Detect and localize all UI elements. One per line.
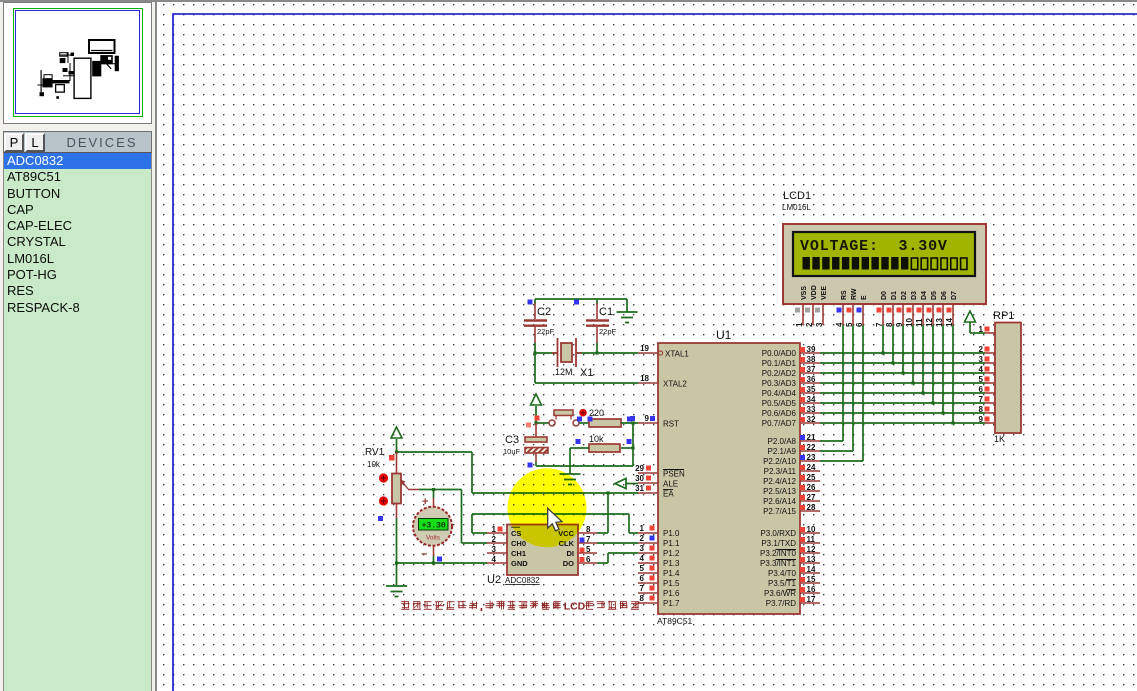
svg-text:P2.1/A9: P2.1/A9 — [768, 447, 797, 456]
svg-text:C3: C3 — [505, 434, 519, 446]
svg-text:E: E — [861, 295, 868, 300]
svg-text:32: 32 — [807, 415, 816, 424]
svg-text:D0: D0 — [881, 291, 888, 300]
svg-text:C2: C2 — [537, 306, 551, 318]
svg-text:D5: D5 — [931, 291, 938, 300]
svg-text:8: 8 — [640, 594, 645, 603]
svg-text:10k: 10k — [589, 434, 604, 444]
svg-text:Volts: Volts — [426, 535, 441, 542]
svg-text:2: 2 — [979, 345, 984, 354]
svg-text:16: 16 — [807, 585, 816, 594]
svg-text:22pF: 22pF — [537, 327, 555, 336]
svg-text:DO: DO — [563, 559, 574, 568]
svg-text:P0.0/AD0: P0.0/AD0 — [762, 349, 797, 358]
svg-text:9: 9 — [979, 415, 984, 424]
svg-text:28: 28 — [807, 503, 816, 512]
svg-text:12: 12 — [807, 545, 816, 554]
svg-text:8: 8 — [586, 525, 591, 534]
svg-text:D7: D7 — [951, 291, 958, 300]
svg-text:37: 37 — [807, 365, 816, 374]
svg-text:RP1: RP1 — [993, 310, 1014, 322]
svg-text:10: 10 — [807, 525, 816, 534]
svg-text:RV1: RV1 — [365, 447, 385, 458]
svg-text:P0.4/AD4: P0.4/AD4 — [762, 389, 797, 398]
svg-text:35: 35 — [807, 385, 816, 394]
svg-text:5: 5 — [979, 375, 984, 384]
svg-text:11: 11 — [807, 535, 816, 544]
svg-text:17: 17 — [807, 595, 816, 604]
svg-text:31: 31 — [635, 484, 644, 493]
svg-text:VOLTAGE: 3.30V: VOLTAGE: 3.30V — [800, 238, 948, 255]
svg-text:6: 6 — [979, 385, 984, 394]
svg-text:3: 3 — [640, 544, 645, 553]
svg-text:ADC0832: ADC0832 — [505, 576, 540, 585]
svg-text:P1.5: P1.5 — [663, 579, 680, 588]
svg-text:U2: U2 — [487, 574, 501, 586]
svg-text:+: + — [422, 496, 428, 508]
svg-text:P0.5/AD5: P0.5/AD5 — [762, 399, 797, 408]
svg-text:CH0: CH0 — [511, 539, 526, 548]
svg-text:+3.30: +3.30 — [421, 521, 445, 531]
svg-text:36: 36 — [807, 375, 816, 384]
svg-text:P1.0: P1.0 — [663, 529, 680, 538]
svg-text:38: 38 — [807, 355, 816, 364]
svg-text:14: 14 — [807, 565, 816, 574]
svg-text:PSEN: PSEN — [663, 470, 685, 479]
svg-text:P2.4/A12: P2.4/A12 — [763, 477, 796, 486]
svg-text:22: 22 — [807, 443, 816, 452]
svg-text:4: 4 — [979, 365, 984, 374]
svg-text:P2.2/A10: P2.2/A10 — [763, 457, 796, 466]
svg-text:P3.4/T0: P3.4/T0 — [768, 569, 797, 578]
svg-text:4: 4 — [492, 555, 497, 564]
svg-text:U1: U1 — [716, 328, 732, 342]
svg-text:19: 19 — [640, 344, 649, 353]
svg-text:VEE: VEE — [821, 286, 828, 300]
svg-text:P1.2: P1.2 — [663, 549, 680, 558]
svg-text:21: 21 — [807, 433, 816, 442]
svg-text:2: 2 — [640, 534, 645, 543]
svg-text:P1.6: P1.6 — [663, 589, 680, 598]
svg-text:33: 33 — [807, 405, 816, 414]
svg-text:1: 1 — [640, 524, 645, 533]
svg-text:D3: D3 — [911, 291, 918, 300]
svg-text:P2.6/A14: P2.6/A14 — [763, 497, 796, 506]
svg-text:EA: EA — [663, 490, 674, 499]
svg-text:P2.7/A15: P2.7/A15 — [763, 507, 796, 516]
svg-text:P0.7/AD7: P0.7/AD7 — [762, 419, 797, 428]
svg-text:P0.2/AD2: P0.2/AD2 — [762, 369, 797, 378]
svg-text:P3.5/T1: P3.5/T1 — [768, 579, 797, 588]
svg-text:13: 13 — [807, 555, 816, 564]
svg-text:LCD1: LCD1 — [783, 190, 811, 202]
svg-text:1: 1 — [979, 325, 984, 334]
svg-text:12M: 12M — [555, 367, 573, 377]
svg-text:RW: RW — [851, 288, 858, 300]
svg-text:D2: D2 — [901, 291, 908, 300]
svg-text:3: 3 — [815, 322, 824, 327]
svg-text:RST: RST — [663, 420, 679, 429]
svg-text:DI: DI — [567, 549, 575, 558]
svg-text:2: 2 — [805, 322, 814, 327]
svg-text:7: 7 — [979, 395, 984, 404]
svg-text:39: 39 — [807, 345, 816, 354]
svg-text:X1: X1 — [580, 367, 593, 379]
svg-text:D4: D4 — [921, 291, 928, 300]
svg-text:6: 6 — [640, 574, 645, 583]
svg-text:24: 24 — [807, 463, 816, 472]
svg-text:8: 8 — [979, 405, 984, 414]
svg-text:34: 34 — [807, 395, 816, 404]
svg-text:P3.3/INT1: P3.3/INT1 — [760, 559, 797, 568]
svg-text:3: 3 — [979, 355, 984, 364]
svg-text:ALE: ALE — [663, 480, 678, 489]
svg-text:23: 23 — [807, 453, 816, 462]
svg-text:P0.6/AD6: P0.6/AD6 — [762, 409, 797, 418]
svg-text:30: 30 — [635, 474, 644, 483]
svg-text:P2.3/A11: P2.3/A11 — [764, 467, 797, 476]
svg-text:RS: RS — [841, 290, 848, 300]
svg-text:27: 27 — [807, 493, 816, 502]
svg-text:P2.0/A8: P2.0/A8 — [768, 437, 797, 446]
svg-text:P3.0/RXD: P3.0/RXD — [760, 529, 796, 538]
svg-text:LCD: LCD — [564, 601, 586, 613]
svg-text:26: 26 — [807, 483, 816, 492]
svg-text:LM016L: LM016L — [782, 203, 811, 212]
svg-text:P0.1/AD1: P0.1/AD1 — [762, 359, 797, 368]
svg-text:GND: GND — [511, 559, 528, 568]
svg-text:1K: 1K — [994, 434, 1005, 444]
svg-text:22pF: 22pF — [599, 327, 617, 336]
svg-text:VSS: VSS — [801, 286, 808, 300]
svg-text:10uF: 10uF — [503, 447, 521, 456]
svg-text:P1.7: P1.7 — [663, 599, 680, 608]
svg-text:7: 7 — [640, 584, 645, 593]
svg-text:6: 6 — [586, 555, 591, 564]
svg-text:4: 4 — [640, 554, 645, 563]
svg-text:P1.3: P1.3 — [663, 559, 680, 568]
svg-text:P0.3/AD3: P0.3/AD3 — [762, 379, 797, 388]
svg-text:3: 3 — [492, 545, 497, 554]
svg-text:5: 5 — [586, 545, 591, 554]
svg-text:10k: 10k — [367, 460, 381, 469]
svg-text:VDD: VDD — [811, 285, 818, 300]
svg-text:P3.2/INT0: P3.2/INT0 — [760, 549, 797, 558]
svg-text:7: 7 — [586, 535, 591, 544]
svg-text:P1.1: P1.1 — [663, 539, 680, 548]
svg-text:29: 29 — [635, 464, 644, 473]
svg-text:D6: D6 — [941, 291, 948, 300]
svg-text:25: 25 — [807, 473, 816, 482]
svg-text:P3.7/RD: P3.7/RD — [766, 599, 796, 608]
svg-text:P3.1/TXD: P3.1/TXD — [761, 539, 796, 548]
svg-text:1: 1 — [795, 322, 804, 327]
svg-text:1: 1 — [492, 525, 497, 534]
svg-text:XTAL1: XTAL1 — [665, 350, 689, 359]
svg-text:P2.5/A13: P2.5/A13 — [763, 487, 796, 496]
svg-text:P1.4: P1.4 — [663, 569, 680, 578]
svg-text:5: 5 — [640, 564, 645, 573]
svg-text:D1: D1 — [891, 291, 898, 300]
svg-text:XTAL2: XTAL2 — [663, 380, 687, 389]
svg-text:P3.6/WR: P3.6/WR — [764, 589, 796, 598]
svg-text:9: 9 — [645, 414, 650, 423]
svg-text:15: 15 — [807, 575, 816, 584]
svg-text:18: 18 — [640, 374, 649, 383]
svg-text:CH1: CH1 — [511, 549, 526, 558]
svg-text:AT89C51: AT89C51 — [657, 616, 693, 626]
svg-text:2: 2 — [492, 535, 497, 544]
svg-text:−: − — [421, 549, 427, 561]
svg-text:C1: C1 — [599, 306, 613, 318]
